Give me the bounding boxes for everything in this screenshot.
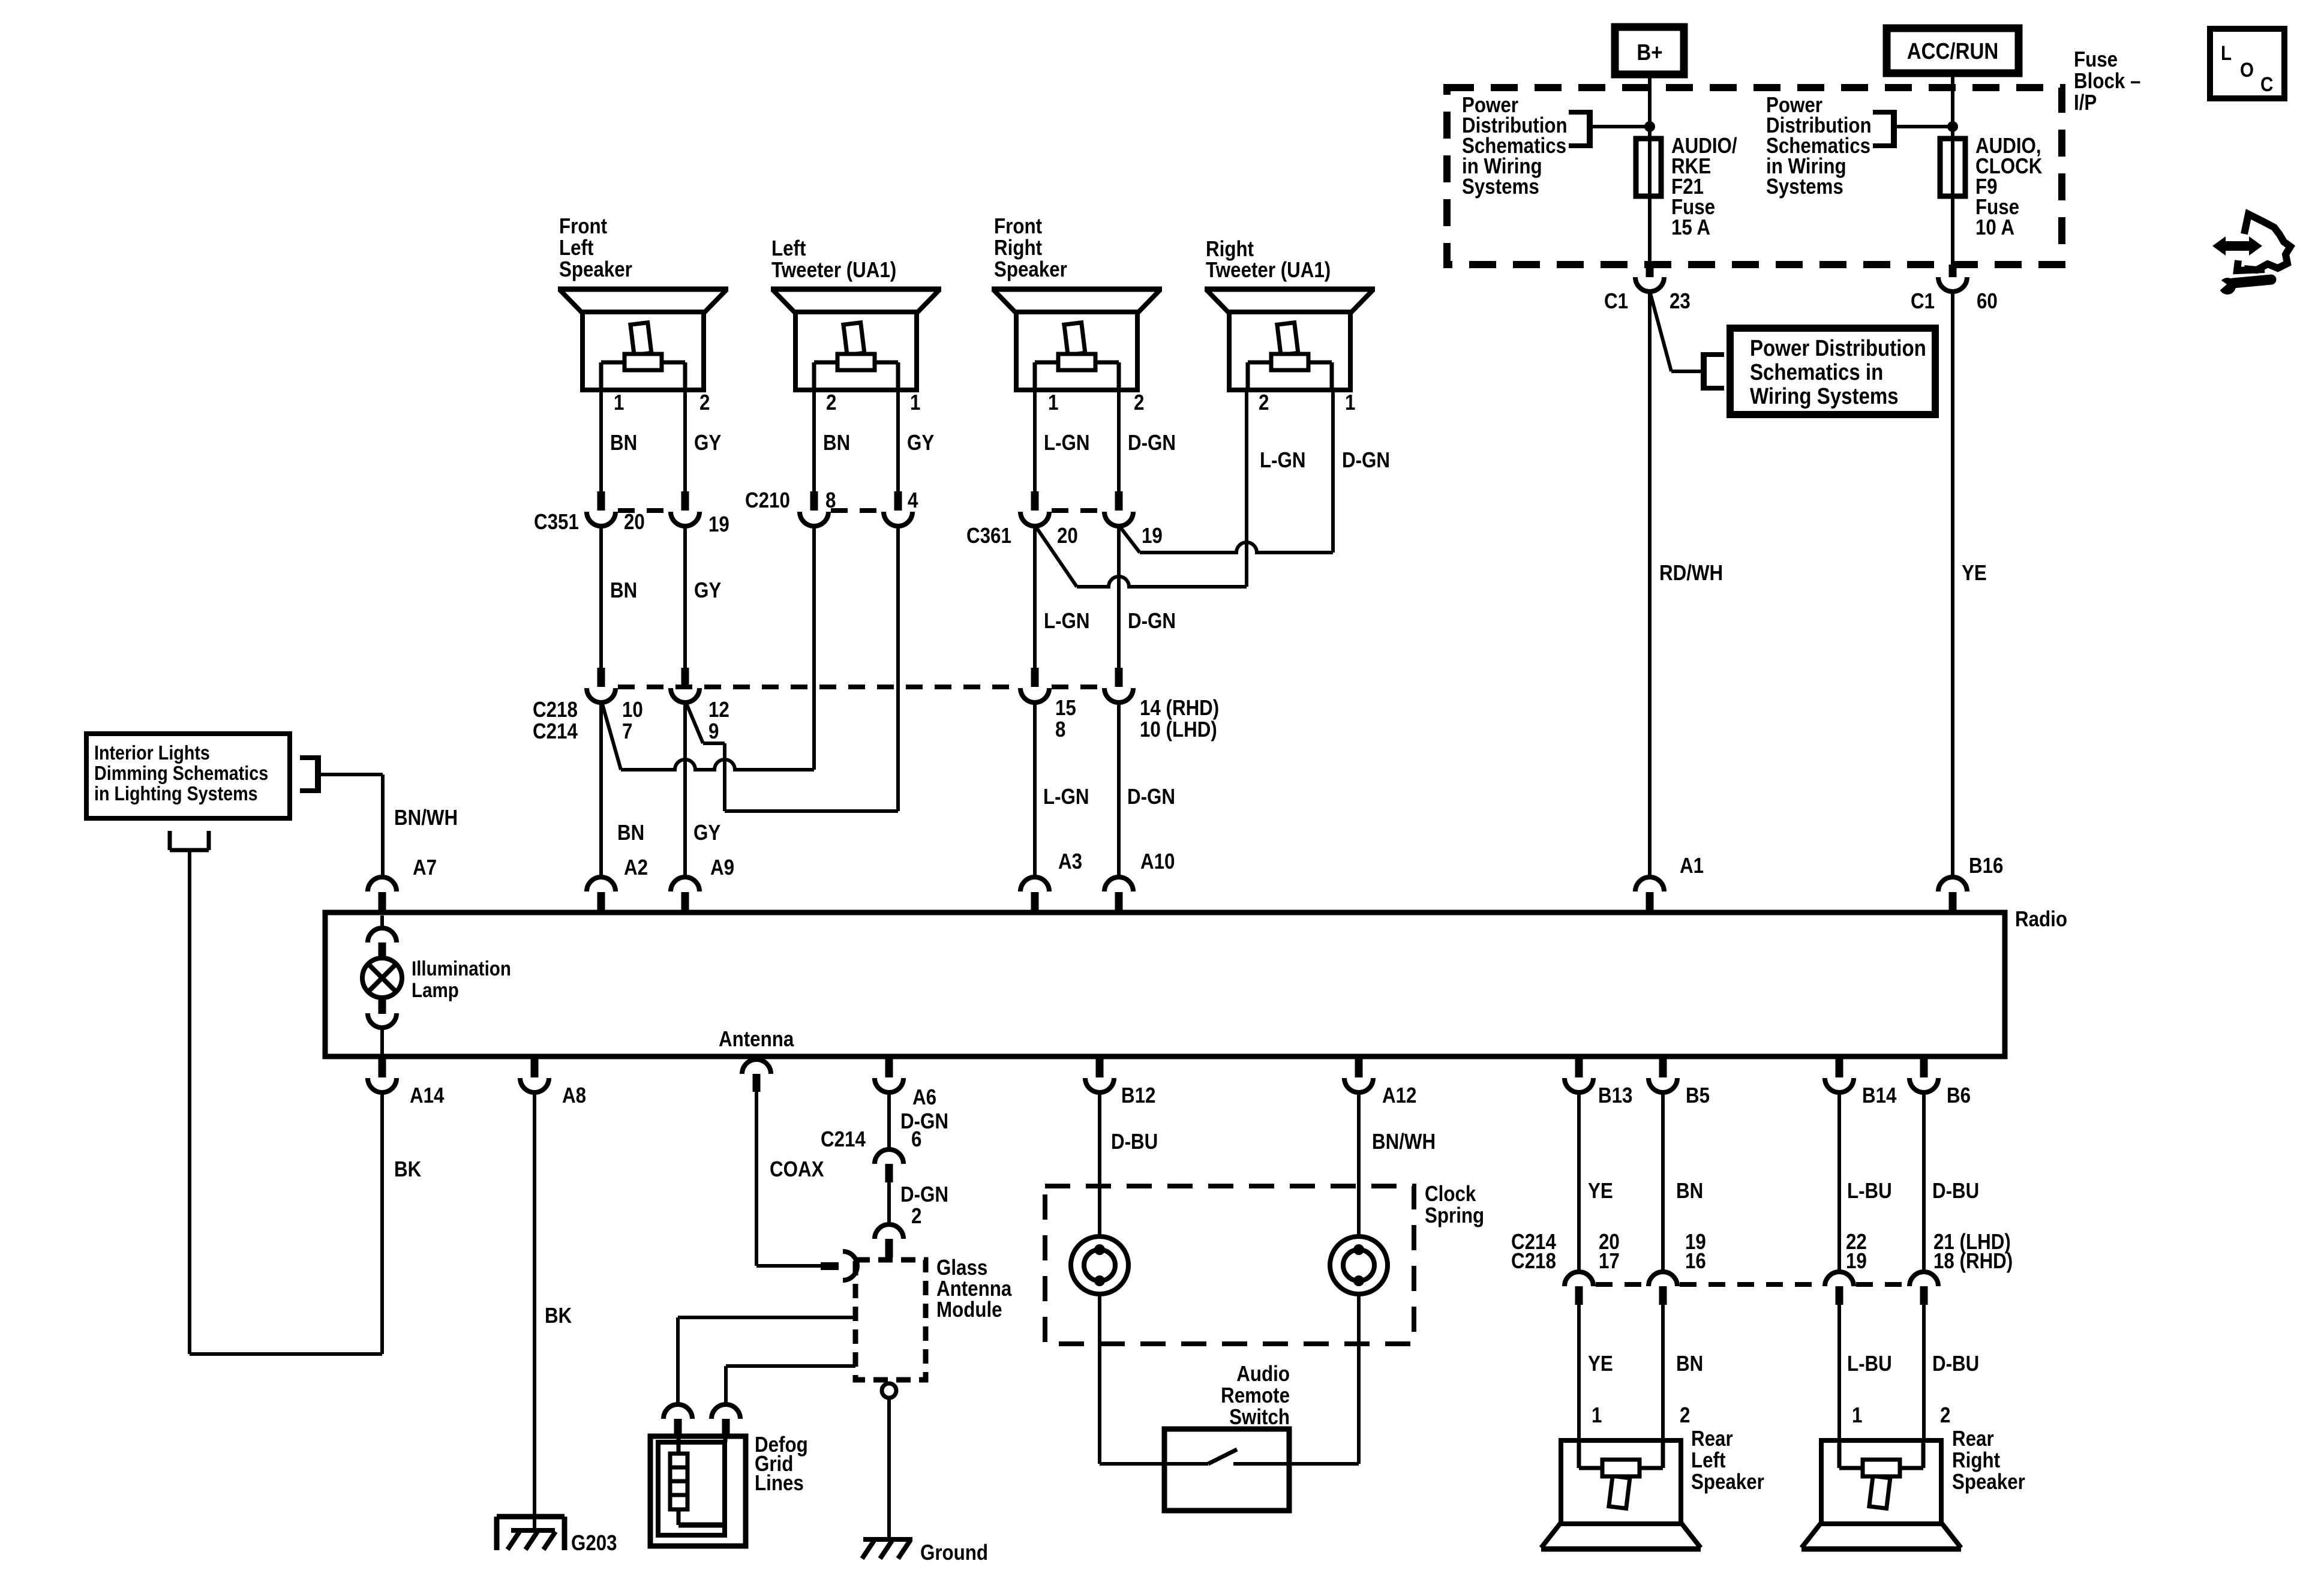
radio terminal B16 (1938, 877, 1967, 891)
svg-text:BK: BK (545, 1304, 572, 1328)
svg-text:A9: A9 (710, 855, 734, 880)
wire to power distribution reference (B+) (1593, 125, 1650, 128)
wire B6 D-BU lower (1922, 1305, 1926, 1440)
defog grid lines box (650, 1436, 746, 1546)
wire C361-20 to RT L-GN (1035, 526, 1077, 587)
svg-text:A3: A3 (1058, 849, 1082, 874)
svg-text:L-BU: L-BU (1847, 1179, 1892, 1203)
svg-text:2: 2 (1680, 1403, 1690, 1428)
speaker left tweeter symbol (771, 289, 941, 390)
clock spring coil A12 (1330, 1236, 1388, 1294)
wire FRS pin1 L-GN upper (1033, 390, 1037, 491)
svg-text:2: 2 (699, 391, 710, 415)
radio terminal B6 (1920, 1056, 1928, 1077)
connector defog pin 2 (711, 1404, 740, 1419)
svg-text:15: 15 (1055, 696, 1076, 721)
svg-text:A2: A2 (624, 855, 648, 880)
wire A8 BK to G203 (533, 1092, 536, 1531)
reference bracket (B+ side) (1587, 110, 1593, 148)
wire RT pin1 D-GN (1331, 390, 1335, 553)
radio terminal B13 (1575, 1056, 1583, 1077)
connector C210 pin 8 (810, 491, 818, 511)
svg-text:A10: A10 (1140, 849, 1175, 874)
wire B+ feed (1648, 74, 1652, 265)
svg-text:Interior Lights: Interior Lights (94, 742, 210, 764)
svg-text:RD/WH: RD/WH (1659, 561, 1723, 586)
svg-text:C351: C351 (534, 510, 579, 535)
page bracket below interior lights box (168, 831, 172, 850)
wire B12 below clock spring (1098, 1294, 1101, 1464)
svg-text:Block –: Block – (2074, 69, 2140, 94)
glass antenna module dashed box (855, 1260, 926, 1380)
connector C218/C214 pin 14/10 (1115, 668, 1123, 687)
svg-text:10 A: 10 A (1975, 215, 2014, 240)
svg-text:1: 1 (1852, 1403, 1862, 1428)
connector rear pin 21/18 (1909, 1272, 1938, 1286)
svg-text:Audio: Audio (1236, 1362, 1290, 1386)
coax connector at glass antenna module (821, 1262, 839, 1270)
svg-text:20: 20 (624, 510, 645, 535)
svg-text:C218: C218 (1511, 1249, 1556, 1274)
illumination lamp (380, 915, 384, 928)
connector C218/C214 pin 10/7 (597, 668, 605, 687)
svg-text:8: 8 (825, 488, 836, 513)
svg-text:Antenna: Antenna (719, 1027, 794, 1052)
wire LT pin2 BN upper (812, 390, 816, 491)
svg-text:Left: Left (771, 236, 806, 261)
wire A14 BK (380, 1092, 384, 1354)
svg-text:B14: B14 (1862, 1083, 1897, 1108)
svg-text:L-GN: L-GN (1043, 785, 1089, 809)
svg-text:C: C (2260, 73, 2273, 95)
svg-text:B6: B6 (1947, 1083, 1971, 1108)
box Interior Lights Dimming Schematics (86, 734, 290, 818)
connector rear pin 19/16 (1649, 1272, 1677, 1286)
svg-text:BN/WH: BN/WH (1372, 1130, 1436, 1154)
wire RT pin2 L-GN (1245, 390, 1248, 587)
svg-text:in Lighting Systems: in Lighting Systems (94, 782, 258, 804)
connector C210 dashed line (831, 508, 881, 513)
fuse block dashed box (1447, 88, 2062, 265)
svg-text:Module: Module (936, 1298, 1002, 1322)
svg-text:A6: A6 (912, 1085, 936, 1110)
radio terminal B5 (1659, 1056, 1667, 1077)
svg-text:Rear: Rear (1952, 1427, 1994, 1451)
glass antenna module ground node (882, 1383, 896, 1398)
radio antenna terminal (742, 1059, 771, 1074)
connector C361 pin 19 (1115, 491, 1123, 511)
svg-text:D-GN: D-GN (900, 1182, 948, 1207)
svg-text:L-BU: L-BU (1847, 1352, 1892, 1376)
connector C1 pin 60 (1949, 265, 1957, 277)
connector C214 pin 6 (875, 1149, 903, 1164)
svg-text:2: 2 (826, 391, 836, 415)
svg-text:2: 2 (911, 1204, 921, 1229)
wire A12 BN/WH (1357, 1092, 1361, 1237)
svg-text:Speaker: Speaker (1691, 1470, 1764, 1494)
junction node B+ (1644, 121, 1655, 132)
wire ACC feed (1951, 73, 1954, 265)
radio terminal A9 (671, 877, 699, 891)
svg-text:I/P: I/P (2074, 91, 2097, 115)
wire glass antenna module to defog pin 2 (726, 1364, 855, 1368)
svg-text:Right: Right (1952, 1448, 2000, 1473)
svg-text:GY: GY (694, 431, 721, 455)
svg-text:BN: BN (823, 431, 850, 455)
wire B14 L-BU lower (1837, 1305, 1841, 1440)
svg-text:8: 8 (1055, 718, 1065, 742)
wire interior lights loop (188, 850, 191, 1354)
svg-text:60: 60 (1977, 289, 1998, 314)
radio terminal A6 (885, 1056, 893, 1077)
audio remote switch box (1164, 1429, 1289, 1511)
fuse F9 (1940, 139, 1965, 196)
svg-text:Radio: Radio (2015, 907, 2067, 932)
wire LT pin1 GY upper (896, 390, 900, 491)
wire B13 YE lower (1577, 1305, 1581, 1440)
svg-text:Systems: Systems (1462, 175, 1539, 199)
wire D-GN to radio A10 (1117, 702, 1121, 877)
connector defog pin 1 (663, 1404, 692, 1419)
svg-text:G203: G203 (571, 1531, 617, 1556)
reference bracket (interior lights) (315, 755, 321, 793)
svg-text:1: 1 (614, 391, 624, 415)
svg-text:1: 1 (1048, 391, 1058, 415)
radio terminal A3 (1020, 877, 1049, 891)
fuse F21 (1636, 139, 1661, 196)
LOC legend box (2210, 29, 2284, 98)
svg-text:O: O (2240, 58, 2254, 81)
svg-text:A7: A7 (413, 855, 437, 880)
reference bracket (ACC side) (1891, 110, 1897, 148)
svg-text:L-GN: L-GN (1044, 431, 1090, 455)
svg-text:GY: GY (694, 578, 721, 603)
svg-text:1: 1 (1345, 391, 1355, 415)
svg-text:Left: Left (1691, 1448, 1725, 1473)
svg-text:C214: C214 (821, 1127, 866, 1152)
svg-text:Lamp: Lamp (412, 978, 459, 1001)
svg-text:Remote: Remote (1221, 1383, 1290, 1408)
svg-text:BN: BN (1676, 1179, 1703, 1203)
wire FRS pin2 D-GN upper (1117, 390, 1121, 491)
svg-text:C214: C214 (533, 719, 578, 744)
connector C361 pin 20 (1031, 491, 1039, 511)
radio terminal A12 (1355, 1056, 1363, 1077)
svg-text:9: 9 (708, 719, 719, 744)
svg-text:D-GN: D-GN (1342, 448, 1390, 473)
svg-text:Lines: Lines (755, 1471, 804, 1496)
speaker rear right symbol (1801, 1440, 1961, 1549)
clock spring dashed box (1045, 1186, 1414, 1344)
svg-text:BN: BN (617, 821, 644, 845)
svg-text:D-GN: D-GN (900, 1109, 948, 1134)
wire B5 BN lower (1661, 1305, 1665, 1440)
svg-text:B13: B13 (1598, 1083, 1632, 1108)
connector C351 pin 19 (681, 491, 689, 511)
wire GY junction to LT GY (686, 702, 703, 743)
svg-text:Clock: Clock (1425, 1182, 1476, 1206)
svg-text:D-BU: D-BU (1932, 1179, 1979, 1203)
connector C361 dashed line (1052, 508, 1102, 513)
svg-text:19: 19 (1142, 524, 1163, 548)
svg-text:15 A: 15 A (1671, 215, 1710, 240)
connector box B+ (1615, 27, 1684, 74)
svg-text:Switch: Switch (1229, 1405, 1290, 1430)
wire GY mid (C351-C218) (683, 526, 687, 668)
svg-text:Ground: Ground (920, 1541, 988, 1565)
svg-text:C1: C1 (1604, 289, 1628, 314)
radio terminal A7 (368, 877, 397, 891)
wire D-GN A6 to C214 (887, 1092, 891, 1149)
wire FRS L-GN mid (1033, 526, 1037, 668)
svg-text:17: 17 (1599, 1249, 1620, 1274)
svg-text:Speaker: Speaker (559, 257, 632, 282)
svg-text:Spring: Spring (1425, 1203, 1484, 1228)
svg-text:D-BU: D-BU (1111, 1130, 1158, 1154)
connector C218/C214 pin 12/9 (681, 668, 689, 687)
connector C351 dashed line (618, 508, 668, 513)
wire YE to radio B16 (1951, 292, 1954, 877)
svg-text:Tweeter (UA1): Tweeter (UA1) (771, 258, 896, 283)
wire C361-19 to RT D-GN (1119, 526, 1140, 553)
svg-text:2: 2 (1940, 1403, 1950, 1428)
svg-text:GY: GY (693, 821, 720, 845)
radio terminal B14 (1836, 1056, 1843, 1077)
svg-text:18 (RHD): 18 (RHD) (1933, 1249, 2013, 1274)
wire B14 L-BU upper (1837, 1092, 1841, 1272)
connector box ACC/RUN (1887, 28, 2019, 73)
svg-text:C361: C361 (966, 524, 1011, 548)
reference bracket (power distribution box) (1701, 352, 1707, 391)
svg-text:Wiring Systems: Wiring Systems (1750, 383, 1899, 409)
wire BN mid (C351-C218) (599, 526, 603, 668)
speaker front left symbol (558, 289, 728, 390)
wire B6 D-BU upper (1922, 1092, 1926, 1272)
wire BN junction to LT BN (602, 702, 621, 770)
radio terminal A2 (587, 877, 615, 891)
wire BN/WH to radio A7 (318, 773, 383, 776)
wire GY to radio A9 (683, 702, 687, 877)
svg-text:A8: A8 (562, 1083, 586, 1108)
svg-text:BN/WH: BN/WH (394, 806, 458, 830)
svg-text:Systems: Systems (1766, 175, 1843, 199)
speaker front right symbol (992, 289, 1162, 390)
rear connector dashed line (1596, 1282, 1646, 1287)
connector C1 pin 23 (1646, 265, 1654, 277)
junction node ACC (1947, 121, 1958, 132)
svg-text:B16: B16 (1969, 854, 2003, 878)
svg-text:Dimming Schematics: Dimming Schematics (94, 762, 268, 784)
speaker rear left symbol (1541, 1440, 1701, 1549)
svg-text:10: 10 (622, 698, 643, 722)
wire A12 below clock spring (1357, 1294, 1361, 1464)
svg-text:Rear: Rear (1691, 1427, 1733, 1451)
svg-text:16: 16 (1685, 1249, 1706, 1274)
connector C351 pin 20 (597, 491, 605, 511)
svg-text:Speaker: Speaker (994, 257, 1067, 282)
svg-text:L: L (2221, 41, 2232, 64)
radio terminal A8 (531, 1056, 539, 1077)
connector rear pin 20/17 (1565, 1272, 1593, 1286)
wire L-GN to radio A3 (1033, 702, 1037, 877)
svg-text:19: 19 (708, 512, 729, 537)
svg-text:Front: Front (994, 214, 1042, 239)
wire COAX (755, 1092, 758, 1266)
radio terminal A1 (1635, 877, 1664, 891)
svg-text:2: 2 (1134, 391, 1144, 415)
svg-text:Schematics in: Schematics in (1750, 359, 1883, 385)
audio remote switch contacts (1100, 1462, 1208, 1466)
svg-text:YE: YE (1962, 561, 1987, 586)
svg-text:19: 19 (1846, 1249, 1867, 1274)
svg-text:14 (RHD): 14 (RHD) (1140, 696, 1219, 721)
connector C218/C214 dashed line (618, 685, 1018, 689)
wire LT GY down to junction (896, 526, 900, 811)
svg-text:BK: BK (394, 1157, 422, 1182)
connector rear pin 22/19 (1825, 1272, 1854, 1286)
svg-text:Illumination: Illumination (412, 957, 511, 980)
svg-text:L-GN: L-GN (1044, 609, 1090, 634)
svg-text:10 (LHD): 10 (LHD) (1140, 718, 1217, 742)
svg-text:C218: C218 (533, 698, 578, 722)
svg-text:YE: YE (1588, 1179, 1613, 1203)
svg-text:D-BU: D-BU (1932, 1352, 1979, 1376)
service info icon (2212, 214, 2290, 295)
svg-text:C210: C210 (745, 488, 790, 513)
svg-text:A1: A1 (1680, 854, 1704, 878)
wire RD/WH to radio A1 (1648, 292, 1652, 877)
svg-text:Fuse: Fuse (2074, 47, 2118, 72)
ground G203 (497, 1514, 565, 1520)
svg-text:D-GN: D-GN (1128, 431, 1176, 455)
wire glass antenna module to defog pin 1 (678, 1316, 855, 1319)
svg-text:2: 2 (1259, 391, 1269, 415)
svg-text:B5: B5 (1686, 1083, 1710, 1108)
svg-text:1: 1 (1592, 1403, 1602, 1428)
svg-text:4: 4 (908, 488, 918, 513)
wire FLS pin1 BN upper (599, 390, 603, 491)
svg-text:Speaker: Speaker (1952, 1470, 2025, 1494)
wire LT BN down to junction (812, 526, 816, 770)
radio terminal B12 (1096, 1056, 1104, 1077)
connector glass antenna module pin 2 (875, 1224, 903, 1239)
svg-text:7: 7 (622, 719, 632, 744)
radio terminal A10 (1104, 877, 1133, 891)
svg-text:B+: B+ (1637, 40, 1662, 65)
svg-text:ACC/RUN: ACC/RUN (1907, 38, 1998, 64)
svg-text:Left: Left (559, 236, 593, 260)
wire FLS pin2 GY upper (683, 390, 687, 491)
svg-text:L-GN: L-GN (1260, 448, 1306, 473)
wire B13 YE upper (1577, 1092, 1581, 1272)
svg-text:A14: A14 (410, 1083, 445, 1108)
wire B12 D-BU (1098, 1092, 1101, 1237)
connector C210 pin 4 (894, 491, 902, 511)
svg-text:Power Distribution: Power Distribution (1750, 335, 1926, 361)
svg-text:12: 12 (708, 698, 729, 722)
wire FRS D-GN mid (1117, 526, 1121, 668)
svg-text:23: 23 (1670, 289, 1691, 314)
wire to power distribution reference (ACC) (1897, 125, 1953, 128)
wire D-GN pin 2 (887, 1182, 891, 1224)
connector C218/C214 pin 15/8 (1031, 668, 1039, 687)
radio terminal A14 (379, 1056, 386, 1077)
wire BN to radio A2 (599, 702, 603, 877)
svg-text:6: 6 (911, 1127, 921, 1152)
svg-text:20: 20 (1057, 524, 1078, 548)
wire B5 BN upper (1661, 1092, 1665, 1272)
clock spring coil B12 (1071, 1236, 1128, 1294)
svg-text:BN: BN (610, 431, 637, 455)
svg-text:C1: C1 (1911, 289, 1935, 314)
svg-text:BN: BN (610, 578, 637, 603)
svg-text:BN: BN (1676, 1352, 1703, 1376)
svg-text:D-GN: D-GN (1127, 785, 1175, 809)
ground symbol (glass antenna module) (863, 1537, 912, 1542)
svg-text:D-GN: D-GN (1128, 609, 1176, 634)
svg-text:YE: YE (1588, 1352, 1613, 1376)
svg-text:1: 1 (910, 391, 920, 415)
svg-text:Right: Right (994, 236, 1042, 260)
radio box (325, 912, 2005, 1056)
svg-text:COAX: COAX (770, 1157, 824, 1182)
svg-text:Tweeter (UA1): Tweeter (UA1) (1206, 258, 1331, 283)
svg-text:Front: Front (559, 214, 607, 239)
box Power Distribution Schematics in Wiring Systems (1730, 328, 1935, 415)
svg-text:GY: GY (907, 431, 934, 455)
speaker right tweeter symbol (1205, 289, 1375, 390)
svg-text:B12: B12 (1121, 1083, 1155, 1108)
wire to power distribution box (1650, 293, 1671, 371)
wire module ground (887, 1398, 891, 1538)
svg-text:A12: A12 (1382, 1083, 1416, 1108)
